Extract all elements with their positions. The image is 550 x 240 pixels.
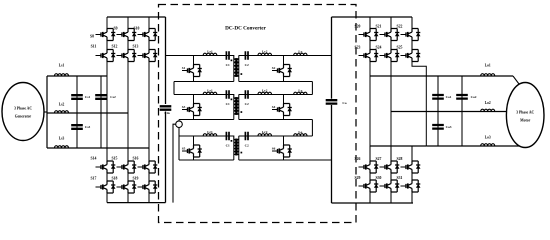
inductor Lr2 (cell1) [258,53,272,55]
svg-text:S11: S11 [91,45,97,49]
wire: cell2 primary top rail [174,94,234,96]
wire: Co2 stub [461,76,463,146]
svg-text:DC-DC Converter: DC-DC Converter [225,25,266,31]
svg-text:S18: S18 [112,177,118,181]
svg-text:Ls2: Ls2 [59,103,65,107]
wire: column midpoint link [148,41,150,50]
IGBT S12 [124,50,134,62]
wire: top stub (right lower bridge) [390,146,392,161]
svg-text:S21: S21 [376,25,382,29]
transformer T1 [229,56,234,60]
wire: phase leg 1 (left) [106,62,108,149]
IGBT S18 [124,181,134,193]
wire: top stub (left lower bridge) [148,148,150,161]
inductor Ls1 [55,74,69,76]
wire: generator phase splitting bus [46,76,48,148]
inductor Lr1 (cell3) [203,134,217,136]
svg-text:S8: S8 [90,35,94,39]
wire: S2 emitter stub [283,77,285,82]
wire: column midpoint link [411,41,413,50]
IGBT S17 [103,181,113,193]
IGBT S13 [145,50,155,62]
svg-text:S30: S30 [376,176,382,180]
svg-text:Co: Co [342,101,346,105]
svg-text:S24: S24 [376,46,382,50]
wire: bottom stub [106,193,108,203]
wire: column midpoint link [148,173,150,181]
svg-text:Co3: Co3 [446,125,452,129]
wire: top stub (left lower bridge) [127,148,129,161]
wire: Cs2 stub [100,76,102,148]
capacitor C2 (cell2) [245,90,248,99]
svg-text:Cs3: Cs3 [85,125,91,129]
capacitor C2 (cell3) [245,132,248,141]
IGBT S1 [189,65,199,77]
inductor Lo (cell1) [294,53,307,55]
IGBT S2 [279,65,289,77]
wire: bottom stub [148,193,150,203]
wire: cell2 primary bottom rail [179,119,234,121]
svg-text:S1: S1 [182,66,186,70]
transformer T3 [229,136,234,140]
svg-text:S9: S9 [113,27,117,31]
IGBT S25 [408,50,418,62]
wire: output series link cell2-cell3 [311,120,313,137]
wire: column midpoint link [411,173,413,180]
transformer T2 [229,95,234,99]
svg-text:Lr2: Lr2 [262,49,268,53]
wire: output DC bus lower [331,105,333,203]
svg-text:Co2: Co2 [471,95,477,99]
wire: top stub (right lower bridge) [411,146,413,161]
wire: phase A line (right) [370,75,513,77]
wire: cell3 primary bottom rail [179,159,234,161]
IGBT S4 [279,104,289,116]
inductor Lo3 [481,144,495,146]
node O (input midpoint circle) [178,120,180,121]
wire: cell3 secondary top rail [239,135,313,137]
IGBT S31 [408,180,418,192]
wire: phase leg 3 (left) [148,62,150,149]
svg-text:C1: C1 [226,63,230,67]
svg-text:C2: C2 [245,63,249,67]
svg-text:Lo3: Lo3 [485,136,491,140]
svg-text:3 Phase AC: 3 Phase AC [14,107,32,111]
capacitor Cs2 [95,95,107,99]
svg-text:S5: S5 [182,147,186,151]
wire: top stub (left lower bridge) [106,148,108,161]
wire: phase leg 1 (right) [369,62,371,147]
inductor Lo (cell3) [294,134,307,136]
IGBT S10 [145,29,155,41]
wire: column midpoint link [390,173,392,180]
capacitor Co1 [432,95,444,99]
wire: bottom stub [127,193,129,203]
svg-text:Ls1: Ls1 [59,64,65,68]
wire: column midpoint link [369,173,371,180]
svg-text:Lo: Lo [298,49,302,53]
wire: Co1 stub [437,76,439,112]
wire: input series link cell2-cell3 and cell3 return [178,128,180,161]
wire: cell1 primary top rail [166,55,234,57]
wire: generator terminal stub [44,111,47,113]
wire: inner DC-link return bus [173,124,176,202]
wire: bottom stub [411,192,413,203]
wire: Co3 stub [437,112,439,147]
svg-text:Lr1: Lr1 [207,49,213,53]
svg-text:C1: C1 [226,144,230,148]
svg-text:S20: S20 [355,25,361,29]
svg-text:Motor: Motor [520,119,530,123]
wire: cell1 secondary bottom rail [239,81,313,83]
svg-text:Cs1: Cs1 [85,95,91,99]
IGBT S8 [103,29,113,41]
IGBT S28 [408,161,418,173]
inductor Lr2 (cell2) [258,92,272,94]
svg-text:Cs2: Cs2 [110,95,116,99]
wire: left DC-link bus upper [165,17,167,104]
wire: column midpoint link [106,173,108,181]
IGBT S26 [366,161,376,173]
capacitor Co2 [456,95,468,99]
svg-text:S29: S29 [355,176,361,180]
IGBT S23 [366,50,376,62]
wire: S3 collector stub [193,95,195,104]
wire: S1 collector stub [193,56,195,65]
IGBT S27 [387,161,397,173]
svg-text:S31: S31 [397,176,403,180]
wire: phase A motor hook [513,76,519,84]
IGBT S19 [145,181,155,193]
wire: column midpoint link [127,173,129,181]
wire: column midpoint link [390,41,392,50]
IGBT S3 [189,104,199,116]
wire: S2 collector stub [283,56,285,65]
svg-text:Generator: Generator [15,115,32,119]
motor M1 (3 Phase AC Motor) [506,83,544,148]
svg-text:S25: S25 [397,46,403,50]
svg-text:S16: S16 [133,157,139,161]
wire: top stub [369,17,371,29]
generator G1 (3 Phase AC Generator) [2,83,44,141]
wire: top stub column 2 (left upper bridge) [127,17,129,29]
inductor Ls2 [55,111,69,113]
inductor Lr1 (cell1) [203,53,217,55]
wire: top stub [390,17,392,29]
IGBT S5 [189,145,199,157]
IGBT S22 [408,29,418,41]
svg-text:Ls3: Ls3 [59,137,65,141]
capacitor Co3 [432,125,444,129]
wire: phase B line (left) [47,112,128,114]
IGBT S30 [387,180,397,192]
svg-text:Lr2: Lr2 [262,88,268,92]
wire: output DC bus upper [331,17,333,99]
wire: phase leg 3 jog (right) [412,62,426,147]
inductor Lr2 (cell3) [258,134,272,136]
svg-text:Lo1: Lo1 [485,64,491,68]
inductor Ls3 [55,146,69,148]
IGBT S6 [279,145,289,157]
wire: cell1 primary bottom rail [174,81,234,83]
wire: right converter DC- bottom rail [332,202,414,204]
wire: phase B line (right) [391,111,507,113]
inductor Lo (cell2) [294,92,307,94]
wire: S4 collector stub [283,95,285,104]
svg-text:S3: S3 [182,105,186,109]
svg-text:Lr2: Lr2 [262,130,268,134]
svg-text:Lo: Lo [298,130,302,134]
inductor Lo1 [481,74,495,76]
wire: cell2 secondary bottom rail [239,119,313,121]
wire: phase C line / lower bridge top rail (left) [47,147,149,149]
inductor Lr1 (cell2) [203,92,217,94]
wire: S3 emitter stub [193,116,195,120]
svg-text:S19: S19 [133,177,139,181]
wire: cell3 primary top rail [179,135,234,137]
svg-text:Cin: Cin [164,111,169,115]
svg-text:S14: S14 [91,157,97,161]
wire: phase leg 2 (right) [390,62,392,147]
wire: S6 emitter stub [283,157,285,160]
svg-text:S2: S2 [272,66,276,70]
IGBT S20 [366,29,376,41]
capacitor Cs3 [71,125,83,129]
wire: top stub column 1 (left upper bridge) [106,17,108,29]
capacitor Cin [160,106,172,109]
capacitor C2 (cell1) [245,51,248,60]
svg-text:S28: S28 [397,157,403,161]
svg-text:S26: S26 [355,157,361,161]
capacitor C1 (cell3) [226,132,229,141]
IGBT S16 [145,161,155,173]
svg-text:S22: S22 [397,25,403,29]
wire: top stub (right lower bridge) [369,146,371,161]
IGBT S21 [387,29,397,41]
svg-text:S23: S23 [355,46,361,50]
wire: right lower bridge top rail / phase C [370,145,426,147]
wire: output series link cell1-cell2 [311,82,313,95]
wire: phase C line (right) [426,145,519,147]
capacitor Cs1 [71,95,83,99]
svg-text:S6: S6 [272,147,276,151]
wire: S1 emitter stub [193,77,195,82]
wire: input series link cell1-cell2 [173,82,175,95]
wire: left converter DC+ top rail [107,16,166,18]
wire: Cs3 stub [76,113,78,148]
capacitor C1 (cell2) [226,90,229,99]
svg-text:C1: C1 [226,102,230,106]
svg-text:Lo2: Lo2 [485,101,491,105]
svg-text:C2: C2 [245,144,249,148]
svg-text:3 Phase AC: 3 Phase AC [516,111,534,115]
wire: column midpoint link [127,41,129,50]
svg-text:S17: S17 [91,177,97,181]
svg-text:Lo: Lo [298,88,302,92]
wire: left DC-link bus lower [165,112,167,203]
wire: bottom stub [369,192,371,203]
svg-text:Co1: Co1 [446,95,452,99]
svg-text:Lr1: Lr1 [207,130,213,134]
svg-text:C2: C2 [245,102,249,106]
wire: S4 emitter stub [283,116,285,120]
wire: right converter DC+ top rail [332,16,413,18]
wire: S5 collector stub [193,136,195,145]
svg-text:S10: S10 [134,27,140,31]
wire: S5 emitter stub [193,157,195,160]
IGBT S15 [124,161,134,173]
wire: top stub column 3 (left upper bridge) [148,17,150,29]
svg-text:S27: S27 [376,157,382,161]
svg-text:S13: S13 [133,45,139,49]
svg-text:S12: S12 [112,45,118,49]
wire: column midpoint link [106,41,108,50]
wire: Cs1 stub [76,76,78,113]
wire: top stub [411,17,413,29]
capacitor C1 (cell1) [226,51,229,60]
wire: cell2 secondary top rail [239,94,313,96]
inductor Lo2 [481,109,495,111]
svg-text:S15: S15 [112,157,118,161]
IGBT S14 [103,161,113,173]
capacitor Co [326,100,338,103]
IGBT S11 [103,50,113,62]
dashed box: DC-DC Converter [159,5,357,223]
wire: cell1 secondary top rail [239,55,332,57]
IGBT S29 [366,180,376,192]
wire: phase leg 2 (left) [127,62,129,149]
wire: S6 collector stub [283,136,285,145]
IGBT S9 [124,29,134,41]
wire: bottom stub [390,192,392,203]
wire: cell3 secondary bottom rail [239,159,332,161]
wire: column midpoint link [369,41,371,50]
svg-text:Lr1: Lr1 [207,88,213,92]
svg-text:S4: S4 [272,105,276,109]
IGBT S24 [387,50,397,62]
wire: left converter DC- bottom rail [107,202,166,204]
wire: phase A line (left) [47,75,107,77]
